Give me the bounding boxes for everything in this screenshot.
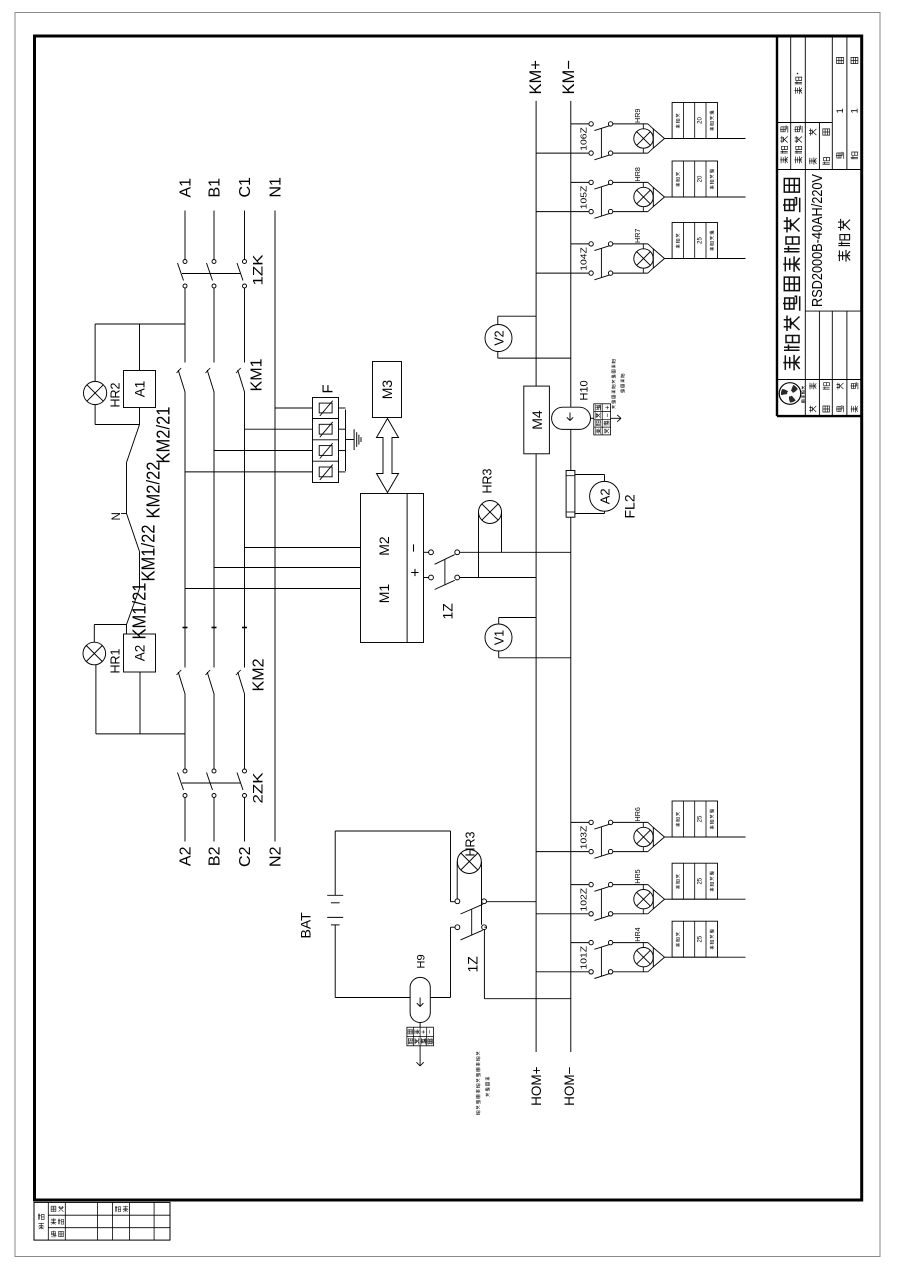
- svg-text:B2: B2: [207, 846, 224, 866]
- svg-text:1: 1: [835, 108, 846, 113]
- branch 102Z tap from bus+: [536, 913, 588, 915]
- wire HR3 top lead: [478, 512, 480, 578]
- breaker 2ZK pole C: [243, 794, 247, 798]
- svg-text:A1: A1: [178, 178, 195, 198]
- wire 101Z pole outlets: [613, 971, 648, 973]
- wire tick marks: [183, 627, 188, 629]
- wire F common: [345, 410, 347, 472]
- wire jog down to bus-: [484, 998, 570, 1000]
- connector X10 block: [594, 404, 611, 435]
- switch 102Z pole right: [589, 882, 593, 886]
- wire H10 to connector: [591, 417, 594, 419]
- switch 103Z pole right: [589, 820, 593, 824]
- contact KM1/22: [127, 589, 140, 625]
- wire neutral N line: [274, 211, 276, 842]
- lamp HR7: [634, 249, 653, 268]
- svg-text:C1: C1: [237, 177, 254, 198]
- title block verticals: [777, 379, 862, 381]
- svg-text:N: N: [111, 512, 123, 520]
- data bus double arrow: [377, 419, 399, 493]
- sheets total row: [836, 152, 844, 159]
- svg-text:2ZK: 2ZK: [250, 772, 266, 804]
- module box M3: [373, 362, 402, 418]
- logo emblem: [779, 383, 801, 405]
- breaker 1ZK pole C: [243, 284, 247, 288]
- title block horizontals: [790, 37, 792, 170]
- branch 103Z tap from bus+: [536, 851, 588, 853]
- svg-text:HR2: HR2: [109, 382, 123, 407]
- wire pole left jog: [484, 926, 486, 928]
- breaker 1ZK pole A: [183, 284, 187, 288]
- relay box A1: [124, 371, 156, 408]
- horn triangle HR8: [653, 187, 664, 206]
- svg-text:H10: H10: [579, 380, 591, 400]
- contact KM2/22: [127, 514, 140, 552]
- wire F4 to line: [275, 407, 313, 409]
- switch 104Z pole right: [589, 242, 593, 246]
- wire V2 lead to bus-: [497, 352, 499, 359]
- wire battery top left: [334, 925, 336, 998]
- signature rows labels: [809, 406, 816, 413]
- wire F2 bottom stub: [339, 450, 346, 452]
- svg-text:1ZK: 1ZK: [250, 254, 266, 286]
- connector arrow: [611, 417, 621, 419]
- wire 106Z to table: [665, 138, 673, 140]
- lamp HR4: [634, 948, 653, 967]
- company name text: [783, 355, 799, 371]
- wire F1 bottom stub: [339, 471, 346, 473]
- svg-text:KM+: KM+: [527, 60, 545, 94]
- svg-text:BAT: BAT: [298, 912, 314, 939]
- wire HR1 right lead: [93, 625, 95, 643]
- contactor KM1 contact C: [238, 370, 245, 393]
- svg-text:101Z: 101Z: [578, 946, 588, 970]
- wire box minus terminal: [424, 551, 429, 553]
- svg-text:−: −: [427, 1030, 434, 1034]
- signoff table rows: [48, 1214, 170, 1216]
- wire HR2 right lead: [94, 324, 96, 381]
- branch 106Z tap from bus-: [571, 123, 589, 125]
- switch 103Z tie bar: [600, 827, 602, 856]
- drawing title text: [838, 250, 850, 262]
- breaker 2ZK pole A: [183, 794, 187, 798]
- logo tiny text: [802, 400, 805, 403]
- svg-text:HR1: HR1: [109, 648, 123, 673]
- wire 101Z outlet: [672, 956, 745, 958]
- svg-text:KM−: KM−: [560, 60, 578, 94]
- battery BAT plates: [331, 924, 340, 926]
- breaker 1ZK tie bar: [182, 273, 241, 275]
- switch 104Z tie bar: [600, 248, 602, 277]
- lamp HR8 stubs: [642, 207, 644, 212]
- wire A1 left lead: [139, 408, 141, 425]
- wire HR2 left lead: [94, 405, 96, 425]
- wire HR3 bottom lead: [501, 512, 503, 552]
- wire 106Z outlet: [672, 138, 745, 140]
- svg-text:1Z: 1Z: [465, 956, 481, 973]
- switch 101Z pole left: [589, 970, 593, 974]
- switch 1Z pole left: [455, 925, 460, 930]
- svg-text:105Z: 105Z: [578, 186, 588, 210]
- svg-text:B1: B1: [207, 178, 224, 198]
- svg-text:HR9: HR9: [633, 109, 642, 123]
- relay box A2: [124, 634, 156, 672]
- varistor element F3: [319, 424, 332, 434]
- wire H9 to connector: [419, 1023, 421, 1028]
- wire plus to bus: [460, 577, 536, 579]
- svg-text:+: +: [604, 406, 611, 410]
- svg-text:−: −: [406, 543, 423, 552]
- lamp HR9: [634, 129, 653, 148]
- feeder table 106Z: [672, 103, 717, 139]
- wire 102Z pole outlets: [613, 913, 648, 915]
- lamp HR5 stubs: [642, 909, 644, 914]
- svg-text:N1: N1: [268, 177, 285, 198]
- svg-text:KM1/21: KM1/21: [130, 583, 150, 640]
- svg-text:M3: M3: [379, 380, 395, 400]
- svg-text:HR4: HR4: [633, 927, 642, 941]
- voltmeter V1: [485, 624, 512, 651]
- lamp HR6 stubs: [642, 847, 644, 852]
- svg-text:HR3: HR3: [464, 831, 478, 856]
- lamp HR2: [84, 381, 107, 404]
- ammeter A2: [590, 481, 620, 511]
- contactor KM2 contact C: [238, 672, 245, 695]
- branch 105Z tap from bus-: [571, 181, 589, 183]
- ground: [346, 439, 355, 441]
- lamp HR6: [634, 827, 653, 846]
- shunt FL2: [566, 471, 575, 518]
- wire box plus terminal: [424, 577, 429, 579]
- wire F3 to line: [245, 428, 313, 430]
- branch 105Z tap from bus+: [536, 211, 588, 213]
- switch 1Z battery tie bar: [471, 909, 473, 935]
- wire 105Z pole outlets: [613, 211, 648, 213]
- wire loop left edge lower: [430, 997, 450, 999]
- wire minus to bus: [460, 551, 571, 553]
- svg-text:FL2: FL2: [622, 494, 638, 518]
- contactor KM1 contact A: [178, 370, 185, 393]
- wire loop bottom left: [450, 927, 452, 997]
- branch 106Z tap from bus+: [536, 152, 588, 154]
- wire battery top right: [334, 831, 336, 895]
- svg-text:HOM−: HOM−: [562, 1066, 577, 1105]
- node N tick: [121, 513, 127, 515]
- svg-text:HR7: HR7: [633, 229, 642, 243]
- switch 101Z tie bar: [600, 947, 602, 976]
- svg-text:N2: N2: [268, 846, 285, 867]
- wire chain segment: [126, 625, 128, 635]
- svg-text:A2: A2: [178, 846, 195, 866]
- H10 arrow glyph: [569, 413, 571, 421]
- wire V1 lead to bus+: [498, 618, 500, 625]
- svg-text:1: 1: [850, 108, 861, 113]
- switch 1Z pole right: [455, 899, 460, 904]
- svg-text:25: 25: [697, 877, 703, 884]
- sensor H9: [410, 977, 430, 1022]
- branch 101Z tap from bus+: [536, 971, 588, 973]
- contactor KM2 contact A: [178, 672, 185, 695]
- horn triangle HR9: [653, 129, 664, 148]
- sheet number row: [851, 152, 858, 159]
- branch 101Z tap from bus-: [571, 942, 589, 944]
- surge arrester F block: [313, 398, 339, 483]
- switch 105Z tie bar: [600, 187, 602, 216]
- svg-text:25: 25: [697, 935, 703, 942]
- wire 104Z outlet: [672, 258, 745, 260]
- switch 101Z pole right: [589, 940, 593, 944]
- svg-text:25: 25: [697, 815, 703, 822]
- svg-text:20: 20: [697, 117, 703, 124]
- signoff table frame: [34, 1202, 170, 1240]
- switch 1Z pole plus: [429, 575, 434, 580]
- feeder table 102Z: [672, 863, 717, 899]
- wire box input B: [214, 567, 361, 569]
- branch 104Z tap from bus-: [571, 243, 589, 245]
- value design: [795, 87, 803, 94]
- wire loop left edge upper: [335, 997, 410, 999]
- contact KM2/21: [127, 425, 140, 463]
- lamp HR3 upper: [479, 501, 502, 524]
- wire phase B line: [213, 798, 215, 842]
- wire 102Z outlet: [672, 898, 745, 900]
- branch 102Z tap from bus-: [571, 884, 589, 886]
- wire F2 to line: [214, 450, 313, 452]
- connector X9 arrow: [419, 1046, 421, 1066]
- svg-text:M4: M4: [529, 410, 545, 430]
- label drawing no: [809, 157, 817, 164]
- svg-text:M1: M1: [376, 584, 392, 604]
- connector X9 block: [407, 1027, 434, 1046]
- label design stage: [795, 156, 803, 163]
- wire V2 lead to bus+: [497, 316, 499, 324]
- branch 104Z tap from bus+: [536, 272, 588, 274]
- varistor element F2: [319, 446, 332, 456]
- wire F1 to line: [185, 471, 313, 473]
- wire HR3b top lead: [456, 862, 458, 900]
- svg-text:103Z: 103Z: [578, 826, 588, 850]
- wire 106Z pole outlets: [613, 152, 648, 154]
- wire 103Z outlet: [672, 836, 745, 838]
- wire A2 leads: [575, 513, 605, 515]
- varistor element F1: [319, 467, 332, 477]
- wire 101Z to table: [665, 956, 673, 958]
- svg-text:102Z: 102Z: [578, 888, 588, 912]
- breaker 1ZK pole B: [212, 284, 216, 288]
- wire F3 bottom stub: [339, 428, 346, 430]
- svg-text:HR8: HR8: [633, 167, 642, 181]
- svg-text:A2: A2: [133, 645, 148, 662]
- contactor KM1 contact B: [207, 370, 214, 393]
- svg-text:KM1/22: KM1/22: [139, 525, 159, 582]
- bus KM+ HOM+ positive: [535, 454, 537, 1052]
- wire 103Z to table: [665, 836, 673, 838]
- wire 105Z outlet: [672, 196, 745, 198]
- switch 102Z pole left: [589, 912, 593, 916]
- wire 103Z pole outlets: [613, 851, 648, 853]
- module box M1 M2: [361, 494, 424, 643]
- wire 102Z to table: [665, 898, 673, 900]
- svg-text:V2: V2: [493, 330, 507, 345]
- horn triangle HR5: [653, 890, 664, 909]
- wire F4 bottom stub: [339, 407, 346, 409]
- switch 106Z tie bar: [600, 128, 602, 157]
- module box M4: [524, 386, 550, 454]
- wire box input A: [185, 588, 361, 590]
- wire pole stubs: [451, 901, 455, 903]
- label date: [823, 158, 830, 165]
- svg-text:−: −: [604, 413, 611, 417]
- wire HR1 left lead: [95, 665, 97, 734]
- lamp HR5: [634, 890, 653, 909]
- svg-text:HR6: HR6: [633, 807, 642, 821]
- switch 1Z pole minus: [429, 550, 434, 555]
- svg-text:RSD2000B-40AH/220V: RSD2000B-40AH/220V: [810, 174, 826, 307]
- wire loop right edge: [335, 830, 450, 832]
- sensor H10: [552, 407, 591, 429]
- signoff table columns: [47, 1202, 49, 1240]
- contactor KM2 contact B: [207, 672, 214, 695]
- lamp HR1: [83, 642, 106, 665]
- feeder table 103Z: [672, 801, 717, 837]
- wire 104Z pole outlets: [613, 272, 648, 274]
- wire V1 lead to bus-: [498, 651, 500, 658]
- svg-text:+: +: [407, 568, 424, 577]
- switch 102Z tie bar: [600, 889, 602, 918]
- svg-text:104Z: 104Z: [578, 247, 588, 271]
- svg-text:HR3: HR3: [481, 468, 495, 493]
- svg-text:106Z: 106Z: [578, 127, 588, 151]
- note text to M3 battery sampling: [476, 1111, 480, 1115]
- svg-text:H9: H9: [416, 954, 428, 968]
- svg-text:C2: C2: [237, 846, 254, 867]
- switch 105Z pole right: [589, 180, 593, 184]
- branch 103Z tap from bus-: [571, 821, 589, 823]
- svg-text:F: F: [320, 384, 337, 393]
- breaker 2ZK tie bar: [182, 782, 241, 784]
- wire phase C line: [244, 798, 246, 842]
- varistor element F4: [319, 403, 332, 413]
- feeder table 101Z: [672, 921, 717, 957]
- wire 105Z to table: [665, 196, 673, 198]
- lamp HR9 stubs: [642, 148, 644, 153]
- bus KM- HOM- negative: [570, 517, 572, 1052]
- voltmeter V2: [485, 325, 512, 352]
- label project name: [780, 156, 788, 163]
- horn triangle HR4: [653, 948, 664, 967]
- svg-text:KM1: KM1: [249, 359, 266, 392]
- svg-text:KM2/22: KM2/22: [144, 462, 164, 519]
- wire chain segment: [139, 552, 141, 589]
- svg-text:20: 20: [697, 175, 703, 182]
- H9 arrow glyph: [419, 998, 421, 1007]
- title block outer border: [777, 415, 862, 417]
- lamp HR4 stubs: [642, 967, 644, 972]
- wire chain segment: [126, 463, 128, 514]
- svg-text:KM2/21: KM2/21: [154, 407, 174, 464]
- svg-text:V1: V1: [493, 630, 507, 645]
- wire HR3b bottom lead: [481, 862, 483, 925]
- svg-text:A1: A1: [133, 381, 148, 398]
- wire A2 left lead: [139, 672, 141, 734]
- note text to M5 sampling: [612, 405, 616, 409]
- signoff texts: [38, 1214, 44, 1220]
- lamp HR3 battery side: [457, 850, 481, 874]
- wire pole right to bus+: [487, 901, 536, 903]
- switch 106Z pole right: [589, 122, 593, 126]
- wire loop bottom right: [450, 831, 452, 902]
- svg-text:KM2: KM2: [251, 659, 268, 692]
- switch 104Z pole left: [589, 271, 593, 275]
- feeder table 105Z: [672, 161, 717, 197]
- switch 103Z pole left: [589, 849, 593, 853]
- switch 1Z tie bar: [444, 560, 446, 585]
- feeder table 104Z: [672, 223, 717, 259]
- lamp HR7 stubs: [642, 268, 644, 273]
- wire box input C: [245, 547, 361, 549]
- svg-text:1Z: 1Z: [440, 603, 456, 620]
- wire branch to A phase at X=531.6: [96, 733, 185, 735]
- wire 104Z to table: [665, 258, 673, 260]
- wire A1 right lead: [139, 324, 141, 371]
- horn triangle HR6: [653, 827, 664, 846]
- breaker 2ZK pole B: [212, 794, 216, 798]
- lamp HR8: [634, 187, 653, 206]
- wire phase A line: [184, 798, 186, 842]
- svg-text:HOM+: HOM+: [529, 1066, 544, 1105]
- switch 105Z pole left: [589, 209, 593, 213]
- svg-text:HR5: HR5: [633, 869, 642, 883]
- wire branch to A phase at X=941.5: [95, 323, 185, 325]
- switch 106Z pole left: [589, 151, 593, 155]
- horn triangle HR7: [653, 249, 664, 268]
- svg-text:M2: M2: [376, 536, 392, 556]
- svg-text:25: 25: [697, 237, 703, 244]
- svg-text:A2: A2: [598, 488, 613, 504]
